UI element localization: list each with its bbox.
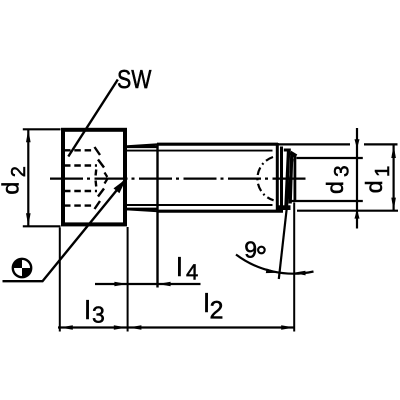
neck top line: [126, 146, 158, 149]
hex socket cone apex dash upper: [105, 173, 108, 178]
tilted pad back edge: [286, 150, 289, 207]
centerline axis: [50, 178, 309, 180]
d3 extension line bottom: [290, 200, 363, 202]
center of gravity symbol: [13, 259, 31, 277]
svg-text:SW: SW: [117, 65, 152, 95]
l3 l2 dimension line: [58, 326, 295, 328]
hex socket corner dash f: [95, 201, 101, 209]
pad seat line: [280, 147, 283, 209]
tilted pad mid edge: [290, 153, 292, 204]
hex socket corner dash c: [94, 170, 97, 176]
tilted pad face line extended to 9 deg arc: [279, 159, 293, 279]
hex socket hidden line row 1: [64, 149, 92, 151]
spherical seat arc (dash-dot): [257, 157, 273, 200]
d2 dimension extension bottom: [23, 225, 61, 227]
hex socket corner dash a: [95, 147, 101, 155]
9 degree arc dimension: [236, 255, 314, 274]
svg-text:l: l: [85, 295, 91, 325]
neck bottom line: [126, 208, 158, 211]
tilted pad bottom corner blob: [276, 205, 290, 210]
svg-text:d: d: [0, 182, 23, 195]
head outline: [63, 130, 125, 225]
d3 extension line top: [297, 157, 363, 159]
l4 dimension line: [95, 283, 201, 285]
d1 extension line bottom: [297, 210, 398, 212]
svg-text:l: l: [176, 252, 182, 282]
svg-text:4: 4: [186, 260, 198, 285]
d3 dimension line: [356, 128, 358, 229]
l2 extension line right (pad face extended): [293, 203, 295, 332]
thread start vertical line (also l4 extension): [156, 144, 158, 288]
leader arrowhead: [114, 179, 127, 193]
l3 l2 extension line left: [59, 228, 61, 332]
thread crest top (continues right as d1 extension line): [157, 143, 278, 146]
hex socket corner dash e: [98, 189, 104, 197]
SW leader line: [68, 80, 118, 157]
hex socket hidden line row 3: [64, 190, 97, 192]
hex socket corner dash d: [94, 181, 97, 187]
thread runout slant top: [127, 144, 159, 146]
svg-text:d: d: [361, 180, 387, 193]
svg-text:3: 3: [331, 165, 354, 177]
thread root line top: [127, 150, 273, 152]
svg-text:2: 2: [209, 296, 223, 324]
svg-text:d: d: [322, 181, 348, 194]
body end vertical line: [276, 143, 279, 211]
tilted pad top corner left: [284, 149, 291, 152]
hex socket hidden line row 2: [64, 164, 97, 166]
pad face (straight position): [293, 155, 296, 201]
thread root line bottom: [127, 204, 273, 206]
hex socket corner dash b: [98, 160, 104, 168]
thread runout slant bottom: [127, 209, 159, 211]
hex socket cone apex dash lower: [105, 179, 108, 184]
svg-text:3: 3: [92, 302, 105, 328]
d1 dimension line: [393, 145, 395, 211]
l3 l4 l2 shared extension line: [127, 227, 129, 332]
svg-text:1: 1: [371, 166, 394, 177]
hex socket hidden line row 4: [64, 204, 92, 206]
d2 dimension line: [27, 129, 29, 226]
svg-text:2: 2: [8, 166, 30, 177]
thread crest bottom: [157, 210, 283, 213]
svg-text:9: 9: [244, 237, 257, 263]
leader from symbol to axis: [3, 179, 127, 281]
d2 dimension extension top: [23, 128, 61, 130]
tilted pad top corner right: [290, 153, 296, 157]
